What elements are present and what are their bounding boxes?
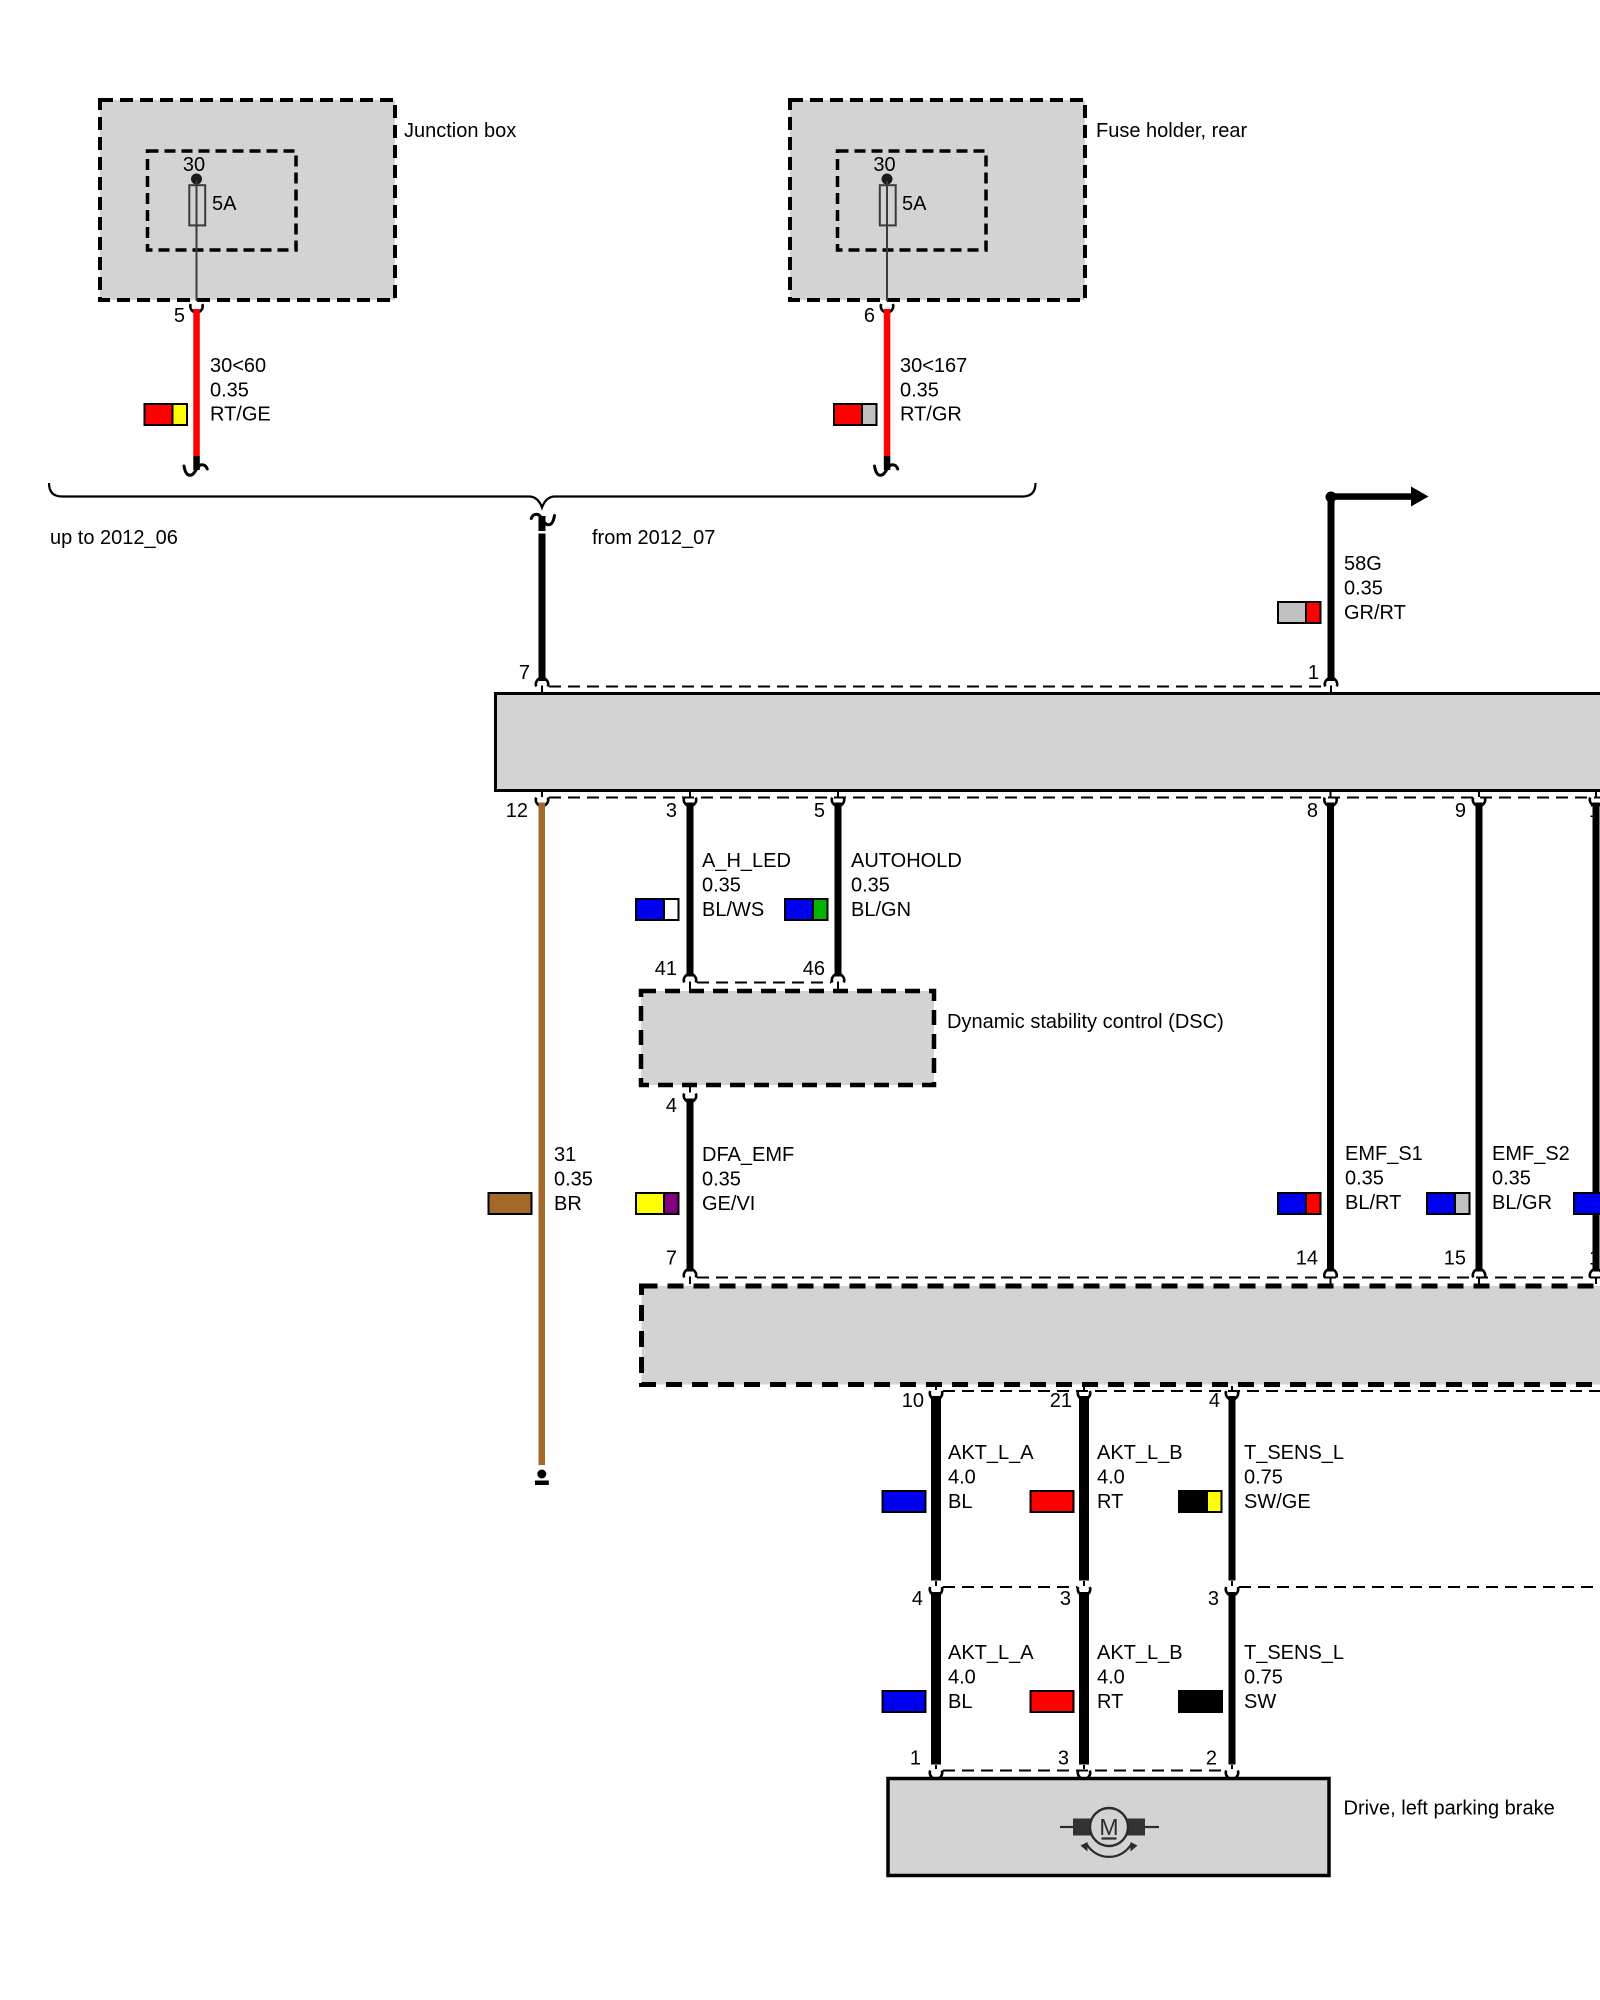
dynamic stability control (DSC) box	[641, 991, 1224, 1085]
wire (right edge, cut)	[1593, 803, 1600, 1272]
fuse carrier (inner box, fuse holder rear)	[838, 151, 987, 250]
value label AKT_L_A 4.0 BL (upper)	[948, 1442, 1034, 1513]
connector dashed line (EMF control unit top)	[697, 1277, 1600, 1279]
svg-text:5A: 5A	[902, 193, 927, 215]
connector dashed line (inline connector, right)	[1239, 1586, 1600, 1588]
svg-text:1: 1	[910, 1748, 921, 1770]
svg-text:30: 30	[873, 154, 895, 176]
svg-text:1: 1	[1308, 662, 1319, 684]
value label AKT_L_A 4.0 BL (lower)	[948, 1642, 1034, 1713]
svg-text:0.35: 0.35	[554, 1169, 593, 1191]
svg-text:17: 17	[1589, 1248, 1600, 1270]
wire stub from brace	[539, 516, 546, 531]
colour code SW/GE	[1179, 1491, 1222, 1512]
pin 9 (control module bottom)	[1455, 792, 1485, 822]
svg-text:BL/GN: BL/GN	[851, 899, 911, 921]
value label A_H_LED 0.35 BL/WS	[702, 850, 791, 921]
wire-continuation squiggle (feed wire top)	[531, 514, 554, 525]
svg-text:BL/GR: BL/GR	[1492, 1192, 1552, 1214]
svg-text:30<60: 30<60	[210, 355, 266, 377]
junction box A1	[100, 100, 516, 300]
pin 46 (DSC top)	[803, 958, 844, 990]
colour code BL/RT	[1278, 1193, 1321, 1214]
connector dashed line (inline connector, left)	[943, 1586, 1077, 1588]
svg-text:RT/GR: RT/GR	[900, 404, 962, 426]
colour code GR/RT	[1278, 602, 1321, 623]
svg-text:Drive, left parking brake: Drive, left parking brake	[1344, 1798, 1555, 1820]
wire EMF_S1 0.35 BL/RT	[1327, 803, 1334, 1272]
value label 30&lt;60 0.35 RT/GE	[210, 355, 271, 426]
svg-text:BL/RT: BL/RT	[1345, 1192, 1401, 1214]
value label AKT_L_B 4.0 RT (lower)	[1097, 1642, 1183, 1713]
colour code SW	[1179, 1691, 1222, 1712]
wire-continuation squiggle (RT/GE)	[184, 465, 207, 476]
ground symbol (terminal 31)	[535, 1470, 549, 1486]
pin 17 (EMF control unit top, cut at edge)	[1589, 1248, 1600, 1285]
inline connector pin 3 (AKT_L_B)	[1060, 1581, 1090, 1610]
svg-text:5: 5	[174, 305, 185, 327]
svg-text:0.35: 0.35	[900, 379, 939, 401]
wire feed to pin 7	[539, 534, 546, 682]
svg-text:SW/GE: SW/GE	[1244, 1491, 1311, 1513]
svg-text:BL: BL	[948, 1491, 972, 1513]
svg-text:58G: 58G	[1344, 553, 1382, 575]
wire AKT_L_B 4.0 RT (lower)	[1079, 1592, 1089, 1765]
svg-text:31: 31	[554, 1144, 576, 1166]
svg-text:3: 3	[1058, 1748, 1069, 1770]
svg-text:EMF_S2: EMF_S2	[1492, 1143, 1570, 1165]
svg-text:15: 15	[1444, 1248, 1466, 1270]
connector dashed line (DSC top)	[697, 982, 831, 984]
pin 5 (junction box)	[174, 304, 203, 327]
svg-text:Junction box: Junction box	[404, 120, 516, 142]
pin 1 (drive, left parking brake)	[910, 1748, 942, 1779]
svg-text:A_H_LED: A_H_LED	[702, 850, 791, 872]
svg-text:RT/GE: RT/GE	[210, 404, 271, 426]
svg-text:AKT_L_B: AKT_L_B	[1097, 1442, 1183, 1464]
svg-text:8: 8	[1307, 800, 1318, 822]
value label 31 0.35 BR	[554, 1144, 593, 1215]
svg-text:4: 4	[666, 1095, 677, 1117]
svg-text:0.35: 0.35	[702, 1169, 741, 1191]
svg-text:41: 41	[655, 958, 677, 980]
colour code BR	[489, 1193, 532, 1214]
pin 41 (DSC top)	[655, 958, 696, 990]
value label T_SENS_L 0.75 SW/GE	[1244, 1442, 1344, 1513]
svg-text:4: 4	[912, 1588, 923, 1610]
svg-text:5A: 5A	[212, 193, 237, 215]
svg-text:4.0: 4.0	[1097, 1667, 1125, 1689]
value label DFA_EMF 0.35 GE/VI	[702, 1144, 794, 1215]
fuse holder, rear A2	[790, 100, 1248, 300]
colour code RT/GE	[145, 404, 188, 425]
svg-text:6: 6	[864, 305, 875, 327]
connector dashed line (EMF control unit bottom)	[943, 1390, 1600, 1392]
pin 7 (EMF control unit top)	[666, 1248, 696, 1285]
pin 3 (control module bottom)	[666, 792, 696, 822]
pin 5 (control module bottom)	[814, 792, 844, 822]
svg-text:0.35: 0.35	[702, 875, 741, 897]
svg-text:AUTOHOLD: AUTOHOLD	[851, 850, 962, 872]
pin 1 (control module top)	[1308, 662, 1337, 693]
drive, left parking brake box	[888, 1779, 1555, 1876]
svg-text:5: 5	[814, 800, 825, 822]
pin 14 (EMF control unit top)	[1296, 1248, 1337, 1285]
svg-text:RT: RT	[1097, 1491, 1123, 1513]
svg-text:EMF_S1: EMF_S1	[1345, 1143, 1423, 1165]
svg-text:0.75: 0.75	[1244, 1467, 1283, 1489]
value label AKT_L_B 4.0 RT (upper)	[1097, 1442, 1183, 1513]
svg-text:0.75: 0.75	[1244, 1667, 1283, 1689]
wire DFA_EMF 0.35 GE/VI	[687, 1099, 694, 1272]
pin 15 (EMF control unit top)	[1444, 1248, 1485, 1285]
svg-text:3: 3	[666, 800, 677, 822]
svg-text:AKT_L_A: AKT_L_A	[948, 1642, 1034, 1664]
colour code GE/VI	[636, 1193, 679, 1214]
pin 16 (control module bottom, cut at edge)	[1589, 792, 1600, 822]
svg-text:21: 21	[1050, 1390, 1072, 1412]
value label AUTOHOLD 0.35 BL/GN	[851, 850, 962, 921]
motor M (parking brake drive)	[1060, 1808, 1159, 1857]
svg-text:0.35: 0.35	[1345, 1168, 1384, 1190]
control module (instrument cluster) box	[496, 694, 1600, 791]
svg-text:RT: RT	[1097, 1691, 1123, 1713]
svg-text:up to 2012_06: up to 2012_06	[50, 527, 178, 549]
colour code RT (upper)	[1031, 1491, 1074, 1512]
node junction dot 58G	[1326, 492, 1337, 503]
pin 2 (drive, left parking brake)	[1206, 1748, 1238, 1779]
pin 7 (control module top)	[519, 662, 548, 693]
wire T_SENS_L 0.75 SW/GE (upper)	[1229, 1396, 1236, 1581]
pin 6 (fuse holder rear)	[864, 304, 893, 327]
svg-text:0.35: 0.35	[1344, 578, 1383, 600]
svg-text:10: 10	[902, 1390, 924, 1412]
wire 58G riser (pin 1 to arrow)	[1328, 500, 1335, 681]
svg-text:7: 7	[519, 662, 530, 684]
svg-text:Fuse holder, rear: Fuse holder, rear	[1096, 120, 1248, 142]
svg-text:46: 46	[803, 958, 825, 980]
svg-text:DFA_EMF: DFA_EMF	[702, 1144, 794, 1166]
svg-text:0.35: 0.35	[1492, 1168, 1531, 1190]
fuse F* 5A (junction box)	[189, 185, 237, 225]
wire AKT_L_A 4.0 BL (lower)	[931, 1592, 941, 1765]
svg-text:4: 4	[1209, 1390, 1220, 1412]
inline connector pin 3 (T_SENS_L)	[1208, 1581, 1238, 1610]
svg-text:T_SENS_L: T_SENS_L	[1244, 1442, 1344, 1464]
wire AUTOHOLD 0.35 BL/GN	[835, 803, 842, 977]
EMF control unit box	[642, 1286, 1600, 1385]
svg-text:3: 3	[1208, 1588, 1219, 1610]
svg-text:Dynamic stability control (DSC: Dynamic stability control (DSC)	[947, 1011, 1224, 1033]
fuse carrier (inner box, junction box)	[148, 151, 297, 250]
wire T_SENS_L 0.75 SW (lower)	[1229, 1592, 1236, 1765]
value label 58G 0.35 GR/RT	[1344, 553, 1406, 624]
svg-text:M: M	[1099, 1814, 1118, 1840]
colour code (right edge, cut)	[1574, 1193, 1600, 1214]
svg-text:0.35: 0.35	[851, 875, 890, 897]
svg-text:BR: BR	[554, 1193, 582, 1215]
svg-text:14: 14	[1296, 1248, 1318, 1270]
colour code BL/WS	[636, 899, 679, 920]
colour code BL (upper)	[883, 1491, 926, 1512]
wire 30&lt;167 0.35 RT/GR	[884, 309, 891, 470]
svg-text:4.0: 4.0	[948, 1667, 976, 1689]
colour code BL/GN	[785, 899, 828, 920]
value label EMF_S2 0.35 BL/GR	[1492, 1143, 1570, 1214]
value label EMF_S1 0.35 BL/RT	[1345, 1143, 1423, 1214]
wire-continuation squiggle (RT/GR)	[875, 465, 898, 476]
wire 30&lt;60 0.35 RT/GE	[193, 309, 200, 470]
wire 31 0.35 BR (ground wire)	[539, 803, 546, 1466]
svg-text:30<167: 30<167	[900, 355, 967, 377]
fuse F* 5A (fuse holder rear)	[880, 185, 927, 225]
alternative-variant brace	[49, 483, 1036, 508]
svg-text:30: 30	[183, 154, 205, 176]
wire EMF_S2 0.35 BL/GR	[1476, 803, 1483, 1272]
svg-text:BL/WS: BL/WS	[702, 899, 764, 921]
svg-text:from 2012_07: from 2012_07	[592, 527, 715, 549]
connector dashed line (drive, left parking brake)	[943, 1770, 1226, 1772]
pin 10 (EMF control unit bottom)	[902, 1386, 942, 1412]
wire 58G arrow to next sheet	[1334, 487, 1429, 507]
wire fuse lead (junction box)	[196, 181, 198, 301]
svg-text:T_SENS_L: T_SENS_L	[1244, 1642, 1344, 1664]
svg-text:0.35: 0.35	[210, 379, 249, 401]
wire AKT_L_B 4.0 RT (upper)	[1079, 1396, 1089, 1581]
pin 12 (control module bottom)	[506, 792, 548, 822]
svg-text:7: 7	[666, 1248, 677, 1270]
svg-text:4.0: 4.0	[1097, 1467, 1125, 1489]
svg-text:12: 12	[506, 800, 528, 822]
colour code RT/GR	[834, 404, 877, 425]
value label T_SENS_L 0.75 SW (lower)	[1244, 1642, 1344, 1713]
svg-text:9: 9	[1455, 800, 1466, 822]
svg-text:AKT_L_A: AKT_L_A	[948, 1442, 1034, 1464]
wire A_H_LED 0.35 BL/WS	[687, 803, 694, 977]
value label 30&lt;167 0.35 RT/GR	[900, 355, 967, 426]
svg-text:SW: SW	[1244, 1691, 1276, 1713]
colour code BL/GR	[1427, 1193, 1470, 1214]
colour code BL (lower)	[883, 1691, 926, 1712]
pin 21 (EMF control unit bottom)	[1050, 1386, 1090, 1412]
svg-text:GR/RT: GR/RT	[1344, 602, 1406, 624]
svg-text:2: 2	[1206, 1748, 1217, 1770]
node terminal 30 (fuse holder rear)	[882, 174, 893, 185]
svg-text:BL: BL	[948, 1691, 972, 1713]
svg-text:AKT_L_B: AKT_L_B	[1097, 1642, 1183, 1664]
wire AKT_L_A 4.0 BL (upper)	[931, 1396, 941, 1581]
pin 8 (control module bottom)	[1307, 792, 1337, 822]
pin 3 (drive, left parking brake)	[1058, 1748, 1090, 1779]
pin 4 (EMF control unit bottom)	[1209, 1386, 1238, 1412]
svg-text:GE/VI: GE/VI	[702, 1193, 755, 1215]
wire fuse lead (fuse holder rear)	[886, 181, 888, 301]
inline connector pin 4 (AKT_L_A)	[912, 1581, 942, 1610]
colour code RT (lower)	[1031, 1691, 1074, 1712]
node terminal 30 (junction box)	[191, 174, 202, 185]
pin 4 (DSC bottom)	[666, 1087, 696, 1117]
svg-text:3: 3	[1060, 1588, 1071, 1610]
connector dashed line (control module top)	[549, 686, 1324, 688]
svg-text:4.0: 4.0	[948, 1467, 976, 1489]
connector dashed line (control module bottom)	[549, 797, 1600, 799]
